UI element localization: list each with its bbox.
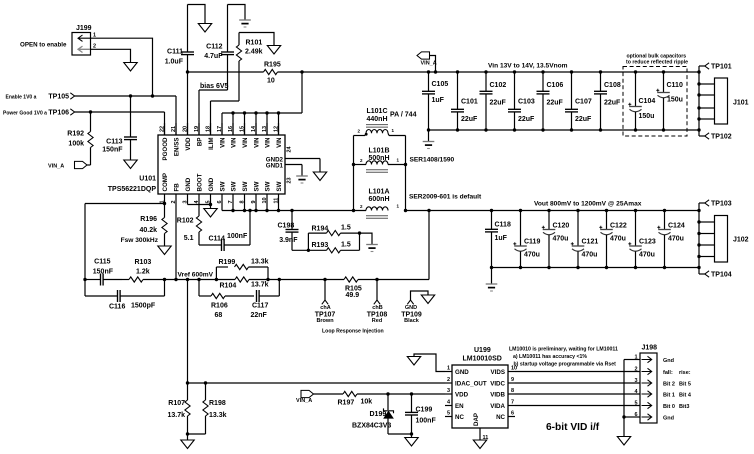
svg-text:22uF: 22uF bbox=[518, 116, 535, 123]
wire C112 top to earth ground bbox=[228, 5, 246, 20]
ground (triangle) at DAP bbox=[473, 440, 486, 449]
capacitor C108 22uF bbox=[594, 70, 621, 131]
svg-text:C107: C107 bbox=[575, 99, 592, 106]
resistor R197 10k bbox=[314, 391, 446, 406]
svg-text:L101A: L101A bbox=[369, 189, 390, 196]
testpoint TP108 chB Red bbox=[367, 278, 388, 324]
wire FB divider vertical bbox=[187, 280, 189, 384]
junction sense/Vout bbox=[427, 209, 430, 212]
svg-text:2.49k: 2.49k bbox=[245, 49, 263, 56]
wire VIN pins bus bbox=[222, 72, 302, 135]
junction divider bottom bbox=[186, 432, 189, 435]
svg-text:C112: C112 bbox=[206, 44, 222, 51]
junction divider tap bbox=[186, 278, 189, 281]
svg-text:C108: C108 bbox=[604, 82, 621, 89]
svg-text:10k: 10k bbox=[361, 398, 373, 405]
svg-text:SW: SW bbox=[276, 181, 283, 191]
svg-text:9: 9 bbox=[511, 377, 514, 383]
svg-text:TP101: TP101 bbox=[711, 64, 732, 71]
svg-text:Black: Black bbox=[404, 318, 420, 324]
capacitor C123 470u bbox=[628, 209, 656, 269]
ground (triangle) below C199 bbox=[405, 434, 418, 446]
svg-text:PA / 744: PA / 744 bbox=[390, 112, 417, 119]
svg-text:150nF: 150nF bbox=[93, 268, 114, 275]
svg-text:R198: R198 bbox=[209, 400, 226, 407]
svg-text:22uF: 22uF bbox=[575, 116, 592, 123]
svg-text:R103: R103 bbox=[135, 259, 152, 266]
testpoint TP109 GND Black bbox=[401, 291, 428, 324]
ground (triangle) at TP109 bbox=[421, 295, 434, 304]
svg-text:LM10010SD: LM10010SD bbox=[463, 356, 502, 363]
svg-text:D199: D199 bbox=[370, 411, 387, 418]
junction L101B right bbox=[404, 163, 407, 166]
junction gnd rail/J101 bbox=[697, 128, 700, 131]
wire J102 vertical bus bbox=[698, 203, 700, 274]
svg-text:Bit 0: Bit 0 bbox=[663, 404, 675, 410]
svg-text:13.7k: 13.7k bbox=[251, 282, 269, 289]
svg-text:440nH: 440nH bbox=[367, 116, 388, 123]
svg-text:TP104: TP104 bbox=[711, 272, 732, 279]
svg-text:R101: R101 bbox=[246, 40, 263, 47]
power flag VIN_A at R197 bbox=[296, 390, 314, 404]
svg-text:C121: C121 bbox=[582, 239, 599, 246]
svg-text:470u: 470u bbox=[639, 252, 655, 259]
svg-text:150u: 150u bbox=[639, 113, 655, 120]
svg-text:3: 3 bbox=[447, 388, 450, 394]
junction outgnd/J102 bbox=[697, 266, 700, 269]
svg-text:1.0uF: 1.0uF bbox=[165, 59, 184, 66]
svg-text:b) startup voltage programmabl: b) startup voltage programmable via Rset bbox=[514, 362, 617, 368]
ground (earth) at C112 bbox=[239, 19, 251, 21]
svg-text:R197: R197 bbox=[338, 399, 355, 406]
ground (triangle) at U199 pin1 bbox=[407, 357, 420, 366]
ground (triangle) at R101 bbox=[267, 46, 280, 55]
connector J101 bbox=[697, 78, 748, 124]
svg-text:Power Good 1V0 a: Power Good 1V0 a bbox=[3, 110, 47, 116]
junction C114/SW bbox=[248, 209, 251, 212]
svg-text:SW: SW bbox=[254, 181, 261, 191]
optional bulk capacitors dashed box bbox=[623, 53, 688, 136]
ground (triangle) at U101 pins 3/5 bbox=[204, 209, 217, 218]
svg-text:22nF: 22nF bbox=[251, 312, 268, 319]
svg-text:2: 2 bbox=[634, 367, 637, 373]
wire FB Vref 600mV net bbox=[165, 279, 217, 281]
ground (earth) at output rail bbox=[486, 268, 498, 292]
svg-text:13.7k: 13.7k bbox=[167, 412, 185, 419]
svg-text:7: 7 bbox=[511, 399, 514, 405]
wire R105 to Vout sense bbox=[377, 211, 429, 280]
junction R199/R104 left bbox=[215, 278, 218, 281]
svg-text:Brown: Brown bbox=[316, 318, 334, 324]
svg-text:22uF: 22uF bbox=[547, 100, 564, 107]
junction C117/main bbox=[278, 278, 281, 281]
svg-text:C120: C120 bbox=[553, 223, 570, 230]
svg-text:11: 11 bbox=[273, 198, 279, 204]
svg-text:VIN_A: VIN_A bbox=[296, 398, 312, 404]
svg-text:J101: J101 bbox=[733, 99, 749, 106]
svg-text:chA: chA bbox=[320, 305, 330, 311]
svg-text:C116: C116 bbox=[109, 303, 125, 310]
svg-text:100nF: 100nF bbox=[227, 233, 248, 240]
svg-text:C111: C111 bbox=[167, 49, 183, 56]
connector J102 bbox=[697, 216, 748, 263]
svg-text:SW: SW bbox=[265, 181, 272, 191]
junction VDD rail / C111 / U101 pin20 bbox=[186, 70, 189, 73]
ground (triangle) below C113 bbox=[124, 160, 137, 169]
svg-text:L101B: L101B bbox=[369, 148, 390, 155]
capacitor C115 150nF bbox=[85, 259, 122, 286]
svg-text:VIN: VIN bbox=[220, 137, 227, 148]
svg-text:C103: C103 bbox=[518, 99, 535, 106]
resistor R199 13.3k bbox=[216, 258, 268, 279]
junction Vin / R195 bbox=[300, 70, 303, 73]
svg-text:LM10010 is preliminary, waitin: LM10010 is preliminary, waiting for LM10… bbox=[509, 347, 618, 353]
svg-text:C119: C119 bbox=[524, 239, 540, 246]
svg-text:10: 10 bbox=[262, 197, 268, 203]
svg-text:C117: C117 bbox=[252, 303, 268, 310]
svg-text:GND: GND bbox=[185, 177, 192, 191]
junction R199/R104 right bbox=[266, 278, 269, 281]
resistor R101 2.49k bbox=[236, 33, 262, 102]
svg-text:22uF: 22uF bbox=[490, 100, 507, 107]
svg-text:Bit3: Bit3 bbox=[679, 404, 689, 410]
wire SW bus from U101 pins to inductors bbox=[222, 203, 366, 211]
U101 right pins GND2 pin24 and GND1 pin23 bbox=[266, 145, 320, 183]
svg-text:VIN: VIN bbox=[231, 137, 238, 148]
junction divider/IDAC bbox=[186, 381, 189, 384]
svg-text:rise:: rise: bbox=[679, 370, 691, 376]
capacitor C113 150nF bbox=[102, 96, 137, 160]
diode D199 BZX84C3V3 zener bbox=[352, 394, 412, 434]
svg-text:470u: 470u bbox=[553, 235, 569, 242]
svg-text:R192: R192 bbox=[67, 131, 84, 138]
svg-text:IDAC_OUT: IDAC_OUT bbox=[455, 380, 487, 387]
capacitor C101 22uF bbox=[451, 70, 478, 131]
svg-text:BOOT: BOOT bbox=[197, 173, 204, 191]
junctions on VIN bus bbox=[231, 111, 280, 114]
testpoint TP101 bbox=[699, 63, 732, 71]
capacitor C117 22nF bbox=[251, 280, 280, 320]
inductor L101A 600nH bbox=[360, 189, 400, 219]
svg-text:C198: C198 bbox=[278, 222, 295, 229]
junction C115 branch bbox=[83, 278, 86, 281]
svg-text:470u: 470u bbox=[524, 252, 540, 259]
svg-text:13.3k: 13.3k bbox=[251, 258, 269, 265]
junction rail/J101 bbox=[697, 70, 700, 73]
svg-text:470u: 470u bbox=[582, 252, 598, 259]
resistor R107 13.7k bbox=[167, 383, 190, 434]
svg-text:5: 5 bbox=[634, 401, 637, 407]
wire COMP net bbox=[85, 203, 165, 296]
svg-text:68: 68 bbox=[215, 312, 223, 319]
wire U101 pin20 VDD bbox=[187, 72, 189, 135]
svg-text:R107: R107 bbox=[168, 400, 185, 407]
svg-text:optional bulk capacitors: optional bulk capacitors bbox=[627, 53, 687, 59]
svg-text:Gnd: Gnd bbox=[663, 415, 674, 421]
capacitor C104 150u (bulk electrolytic) bbox=[628, 70, 655, 131]
junction L101A left bbox=[352, 209, 355, 212]
svg-text:R106: R106 bbox=[211, 303, 228, 310]
wire Vref to R105 bbox=[268, 279, 344, 281]
wire VIDB to J198 pin4 bbox=[515, 393, 640, 395]
wire inductor left vertical bbox=[353, 136, 355, 211]
svg-text:VIN: VIN bbox=[242, 137, 249, 148]
junction J198 pin6 bbox=[622, 415, 625, 418]
svg-text:NC: NC bbox=[455, 414, 464, 421]
svg-text:6: 6 bbox=[511, 410, 514, 416]
svg-text:Gnd: Gnd bbox=[663, 358, 674, 364]
svg-text:C114: C114 bbox=[209, 235, 225, 242]
wire R101 top to ground bbox=[239, 33, 274, 46]
wire J199 pin1 to EN net bbox=[91, 38, 153, 96]
testpoint TP102 bbox=[699, 133, 732, 141]
svg-text:GND1: GND1 bbox=[266, 163, 284, 170]
junction FB bbox=[174, 278, 177, 281]
wire BP net bias 6V5 to U101 pin19 bbox=[199, 90, 228, 135]
ground (triangle) below divider bbox=[181, 434, 194, 449]
svg-text:1uF: 1uF bbox=[495, 235, 508, 242]
wire output ground rail bbox=[492, 267, 700, 269]
svg-text:Bit 5: Bit 5 bbox=[679, 381, 691, 387]
svg-text:Bit 1: Bit 1 bbox=[663, 392, 675, 398]
wire VIDA to J198 pin5 bbox=[515, 405, 640, 407]
resistor R102 5.1 (BOOT) bbox=[177, 203, 202, 245]
wire VIDC to J198 pin3 bbox=[515, 382, 640, 384]
svg-text:VIN: VIN bbox=[254, 137, 261, 148]
svg-text:C110: C110 bbox=[667, 82, 683, 89]
ground (earth) at U101 pin23 GND1 bbox=[296, 165, 308, 184]
svg-text:J198: J198 bbox=[642, 345, 658, 352]
junction R103/C116 bbox=[163, 278, 166, 281]
svg-text:VIN_A: VIN_A bbox=[48, 164, 64, 170]
resistor R198 13.3k bbox=[188, 383, 227, 434]
wire C111 top to ground bbox=[188, 5, 206, 24]
op-amp U199 LM10010SD VID DAC body bbox=[452, 347, 508, 428]
capacitor C118 1uF bbox=[485, 209, 511, 269]
svg-text:5.1: 5.1 bbox=[184, 235, 194, 242]
svg-text:TP103: TP103 bbox=[711, 201, 732, 208]
svg-text:100k: 100k bbox=[68, 141, 84, 148]
svg-text:ILIM: ILIM bbox=[208, 138, 215, 150]
svg-text:PGOOD: PGOOD bbox=[162, 137, 169, 161]
svg-text:R102: R102 bbox=[177, 218, 194, 225]
svg-text:TP106: TP106 bbox=[48, 110, 69, 117]
capacitor C112 4.7uF bbox=[204, 5, 234, 91]
svg-text:100nF: 100nF bbox=[416, 417, 437, 424]
capacitor C107 22uF bbox=[565, 70, 592, 131]
junction C199/D199 bottom bbox=[410, 432, 413, 435]
svg-text:R193: R193 bbox=[312, 242, 329, 249]
wire IDAC_OUT net bbox=[188, 382, 446, 384]
svg-text:Fsw 300kHz: Fsw 300kHz bbox=[121, 237, 159, 244]
svg-text:BZX84C3V3: BZX84C3V3 bbox=[352, 423, 391, 430]
testpoint TP106 Power Good 1V0 a bbox=[3, 109, 75, 117]
capacitor C121 470u bbox=[571, 209, 599, 269]
svg-text:2: 2 bbox=[93, 44, 96, 50]
capacitor C110 150u (bulk electrolytic) bbox=[656, 70, 683, 131]
svg-text:5: 5 bbox=[447, 410, 450, 416]
svg-text:1500pF: 1500pF bbox=[131, 303, 156, 310]
svg-text:C124: C124 bbox=[668, 223, 685, 230]
inductor L101C 440nH bbox=[354, 108, 406, 135]
U101 top pin stubs, numbers and names bbox=[159, 123, 283, 161]
wire U101 pin2 FB bbox=[175, 203, 177, 280]
svg-text:3: 3 bbox=[634, 378, 637, 384]
wire Vout rail bbox=[406, 210, 700, 212]
svg-text:Bit 4: Bit 4 bbox=[679, 392, 692, 398]
connector J199 (OPEN to enable) bbox=[72, 25, 96, 55]
svg-text:GND: GND bbox=[405, 305, 417, 311]
svg-text:C104: C104 bbox=[639, 98, 656, 105]
svg-text:TPS56221DQP: TPS56221DQP bbox=[108, 186, 157, 193]
svg-text:SER1408/1590: SER1408/1590 bbox=[410, 157, 455, 164]
svg-text:500nH: 500nH bbox=[369, 155, 390, 162]
svg-text:1: 1 bbox=[447, 365, 450, 371]
capacitor C105 1uF bbox=[422, 70, 448, 131]
wire VIDS to J198 pin2 bbox=[515, 371, 640, 373]
svg-text:C118: C118 bbox=[495, 222, 511, 229]
ground (triangle) at U101 pin24 GND2 bbox=[313, 159, 326, 181]
capacitor C114 100nF (BOOT) bbox=[199, 211, 250, 252]
junction D199/VDD bbox=[386, 392, 389, 395]
svg-text:a) LM10011 has accuracy <1%: a) LM10011 has accuracy <1% bbox=[513, 354, 587, 360]
capacitor C116 1500pF bbox=[85, 280, 165, 311]
svg-text:150u: 150u bbox=[667, 96, 683, 103]
ground (triangle) below J199 pin2 bbox=[124, 63, 137, 72]
svg-text:U101: U101 bbox=[139, 176, 156, 183]
junction R193/R194 left bbox=[307, 249, 310, 252]
svg-text:VIDB: VIDB bbox=[490, 391, 505, 398]
svg-text:40.2k: 40.2k bbox=[139, 227, 157, 234]
capacitor C111 1.0uF bbox=[165, 5, 194, 73]
capacitor C106 22uF bbox=[537, 70, 564, 131]
svg-text:VIDS: VIDS bbox=[491, 369, 505, 376]
svg-text:EN: EN bbox=[455, 403, 464, 410]
wire inductor right vertical bbox=[405, 136, 407, 211]
svg-text:4.7uF: 4.7uF bbox=[204, 53, 223, 60]
svg-text:GND: GND bbox=[208, 177, 215, 191]
capacitor C122 470u bbox=[599, 209, 627, 269]
svg-text:fall:: fall: bbox=[663, 370, 673, 376]
op-amp U101 TPS56221DQP controller IC body bbox=[108, 135, 285, 194]
junction COMP pin1 bbox=[163, 202, 166, 205]
svg-text:OPEN to enable: OPEN to enable bbox=[20, 42, 67, 49]
svg-text:Bit 2: Bit 2 bbox=[663, 381, 675, 387]
svg-text:NC: NC bbox=[496, 414, 505, 421]
svg-text:1: 1 bbox=[93, 33, 96, 39]
junction GND pins bbox=[209, 203, 212, 206]
testpoint TP107 chA Brown bbox=[315, 278, 336, 324]
resistor R103 1.2k bbox=[122, 259, 165, 282]
ground (triangle) at R196 bbox=[158, 246, 171, 255]
wire U101 GND pins 3,5 bbox=[188, 203, 211, 209]
inductor L101B 500nH bbox=[354, 148, 406, 173]
svg-text:2: 2 bbox=[447, 377, 450, 383]
resistor R193 1.5 bbox=[308, 233, 359, 253]
svg-text:1.2k: 1.2k bbox=[136, 268, 150, 275]
svg-text:R196: R196 bbox=[140, 216, 157, 223]
svg-text:C105: C105 bbox=[432, 81, 449, 88]
J198 signal labels bbox=[663, 358, 692, 422]
resistor R194 1.5 bbox=[308, 225, 359, 251]
ground (earth) at input cap rail bbox=[423, 130, 435, 149]
junction C199/VDD bbox=[410, 392, 413, 395]
U199 left pin stubs and names bbox=[445, 365, 487, 421]
svg-text:VIN: VIN bbox=[276, 137, 283, 148]
resistor R195 10 bbox=[188, 61, 303, 84]
svg-text:Red: Red bbox=[372, 318, 382, 324]
U199 right pin stubs and names bbox=[490, 365, 517, 421]
svg-text:C113: C113 bbox=[106, 138, 122, 145]
svg-text:C115: C115 bbox=[94, 259, 110, 266]
power flag VIN_A at Vin rail bbox=[417, 52, 437, 72]
junction Vout/J102 bbox=[697, 209, 700, 212]
svg-text:Vref 600mV: Vref 600mV bbox=[178, 271, 214, 278]
wire input ground rail bbox=[429, 129, 700, 131]
svg-text:bias 6V5: bias 6V5 bbox=[200, 83, 229, 90]
svg-text:J102: J102 bbox=[733, 236, 749, 243]
ground (triangle) at C111 bbox=[198, 24, 211, 33]
svg-text:1.5: 1.5 bbox=[341, 241, 351, 248]
svg-text:SW: SW bbox=[242, 181, 249, 191]
testpoint TP103 bbox=[699, 200, 732, 208]
wire snubber to ground bbox=[360, 233, 373, 244]
capacitor C124 470u bbox=[657, 209, 685, 269]
svg-text:EN/SS: EN/SS bbox=[174, 138, 181, 157]
junction L101A right bbox=[404, 209, 407, 212]
svg-text:DAP: DAP bbox=[473, 413, 480, 426]
svg-text:FB: FB bbox=[174, 183, 181, 192]
resistor R106 68 bbox=[199, 280, 254, 320]
junction C198/SW bbox=[290, 209, 293, 212]
svg-text:49.9: 49.9 bbox=[346, 292, 360, 299]
svg-text:VDD: VDD bbox=[185, 137, 192, 151]
svg-text:R194: R194 bbox=[312, 225, 329, 232]
ground (triangle) below J198 bbox=[617, 437, 630, 446]
junction R106 branch bbox=[197, 278, 200, 281]
wire J198 ground pins 1,6 bbox=[624, 360, 640, 437]
svg-text:22uF: 22uF bbox=[461, 116, 478, 123]
svg-text:C102: C102 bbox=[490, 82, 507, 89]
svg-text:1uF: 1uF bbox=[432, 97, 445, 104]
svg-text:C122: C122 bbox=[610, 223, 627, 230]
svg-text:3.9nF: 3.9nF bbox=[279, 237, 298, 244]
wire U199 pin1 GND to ground bbox=[414, 354, 445, 372]
svg-text:chB: chB bbox=[372, 305, 382, 311]
svg-text:TP102: TP102 bbox=[711, 134, 732, 141]
resistor R105 49.9 bbox=[344, 277, 377, 299]
wire Vin rail bbox=[302, 71, 699, 73]
svg-text:R104: R104 bbox=[220, 283, 237, 290]
junction R198 top bbox=[204, 381, 207, 384]
connector J198 6-bit VID interface bbox=[634, 345, 657, 423]
svg-text:10: 10 bbox=[267, 78, 275, 85]
svg-text:150nF: 150nF bbox=[102, 146, 123, 153]
svg-text:U199: U199 bbox=[474, 347, 491, 354]
svg-text:Enable 1V0 a: Enable 1V0 a bbox=[6, 94, 37, 100]
svg-text:1.5: 1.5 bbox=[341, 225, 351, 232]
svg-text:C199: C199 bbox=[416, 406, 433, 413]
svg-text:8: 8 bbox=[511, 388, 514, 394]
svg-text:22uF: 22uF bbox=[604, 100, 621, 107]
svg-text:600nH: 600nH bbox=[369, 196, 390, 203]
junction VIN_A / rail bbox=[434, 70, 437, 73]
capacitor C199 100nF bbox=[405, 394, 436, 434]
capacitor C120 470u bbox=[542, 209, 570, 269]
svg-text:VIDC: VIDC bbox=[490, 380, 505, 387]
wire ILIM net R101 to U101 pin18 bbox=[211, 101, 240, 135]
svg-text:C101: C101 bbox=[461, 99, 478, 106]
